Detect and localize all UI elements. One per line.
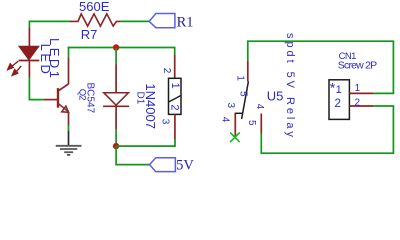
LED cathode bar — [19, 60, 40, 62]
relay coil pin 2 (top) — [174, 55, 176, 79]
CN1 pin 2 stub — [349, 105, 373, 107]
svg-text:1: 1 — [235, 75, 246, 81]
Q2 emitter diagonal with arrow — [58, 103, 69, 112]
svg-text:5: 5 — [246, 120, 257, 126]
svg-text:1: 1 — [355, 83, 361, 94]
Q2 base pin — [44, 99, 57, 101]
ground symbol — [56, 146, 82, 155]
svg-text:1N4007: 1N4007 — [143, 83, 158, 129]
node junction top (D1 anode) — [113, 44, 119, 50]
relay lever — [242, 82, 249, 120]
CN1 pin 1 stub — [349, 92, 373, 94]
wire CN1 pin1 to rail — [373, 92, 394, 94]
wire top-left rail — [29, 20, 70, 22]
transistor Q2 base bar — [57, 88, 59, 108]
node junction bottom — [113, 143, 119, 149]
svg-text:560E: 560E — [79, 0, 110, 14]
wire D1 top — [115, 48, 117, 65]
svg-text:Screw 2P: Screw 2P — [338, 60, 377, 72]
LED1 anode pin — [28, 28, 30, 47]
svg-text:4: 4 — [254, 104, 265, 110]
svg-text:3: 3 — [160, 119, 171, 125]
no-connect X mark — [230, 133, 240, 143]
wire resistor to tag R1 — [120, 20, 150, 22]
relay contact pin 1 — [247, 61, 249, 82]
svg-text:spdt 5V Relay: spdt 5V Relay — [284, 33, 296, 140]
LED D1 triangle — [19, 46, 39, 60]
wire CN1 pin2 to bottom rail — [373, 105, 394, 107]
LED light arrow 2 — [12, 66, 21, 76]
LED light arrow 1 — [8, 61, 19, 69]
svg-text:1: 1 — [169, 83, 181, 89]
svg-text:LED1: LED1 — [47, 38, 62, 81]
relay NO pin 5 vertical — [260, 114, 262, 134]
Q2 collector pin — [68, 58, 70, 85]
svg-text:U5: U5 — [267, 89, 284, 104]
diode D1 cathode bar — [103, 105, 129, 107]
wire right top rail — [248, 41, 394, 93]
svg-text:R1: R1 — [177, 14, 194, 30]
wire bottom mid rail to coil — [116, 139, 175, 146]
coil box diagonal — [169, 96, 181, 103]
wire 5V branch — [116, 146, 150, 165]
wire D1 bottom to rail — [115, 129, 117, 146]
relay NC contact stub — [235, 112, 243, 114]
D1 anode pin — [115, 64, 117, 92]
relay pin 4 lead — [234, 114, 236, 137]
relay U5 coil box — [169, 78, 182, 114]
wire mid rail y46 — [68, 48, 175, 56]
wire collector to mid rail — [68, 47, 70, 58]
svg-text:2: 2 — [355, 97, 361, 108]
wire LED to Q2 base — [29, 77, 44, 100]
diode D1 triangle — [104, 93, 129, 106]
svg-text:R7: R7 — [81, 27, 98, 42]
wire bottom right rail — [261, 106, 393, 153]
Q2 emitter pin — [68, 112, 70, 125]
Q2 collector diagonal — [58, 84, 68, 91]
relay coil pin 3 (bottom) — [174, 114, 176, 139]
LED1 cathode pin — [28, 61, 30, 77]
svg-text:4: 4 — [219, 117, 230, 123]
svg-text:1: 1 — [336, 84, 342, 96]
svg-text:2: 2 — [161, 68, 172, 74]
wire emitter to ground — [68, 125, 70, 131]
svg-text:3: 3 — [225, 103, 236, 109]
wire LED anode drop — [28, 21, 30, 29]
net tag 5V — [150, 158, 176, 172]
D1 cathode pin — [115, 106, 117, 129]
svg-text:2: 2 — [335, 98, 341, 110]
svg-text:BC547: BC547 — [85, 83, 96, 114]
connector CN1 box — [329, 80, 349, 120]
svg-text:5: 5 — [238, 91, 249, 97]
resistor R7 — [70, 14, 120, 26]
net tag R1 — [149, 14, 175, 28]
svg-text:5V: 5V — [176, 157, 194, 173]
ground stub — [68, 131, 70, 146]
svg-text:2: 2 — [169, 104, 181, 110]
